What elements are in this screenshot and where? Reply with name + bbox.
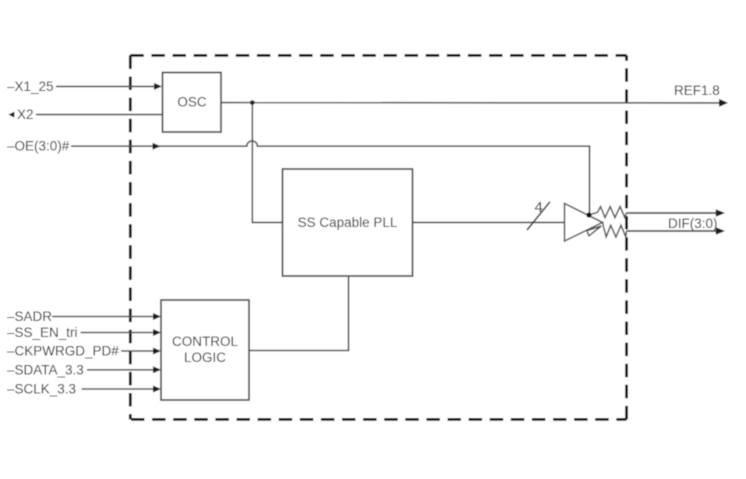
svg-text:4: 4: [535, 199, 543, 216]
svg-text:–SDATA_3.3: –SDATA_3.3: [7, 362, 84, 377]
svg-text:–SADR: –SADR: [7, 309, 52, 324]
svg-text:–CKPWRGD_PD#: –CKPWRGD_PD#: [7, 344, 119, 359]
svg-text:–OE(3:0)#: –OE(3:0)#: [7, 139, 70, 154]
svg-text:CONTROL: CONTROL: [172, 334, 238, 349]
svg-text:X2: X2: [17, 107, 34, 122]
svg-text:OSC: OSC: [177, 95, 207, 110]
svg-text:–SCLK_3.3: –SCLK_3.3: [7, 382, 76, 397]
svg-text:SS Capable PLL: SS Capable PLL: [298, 215, 398, 230]
svg-text:LOGIC: LOGIC: [184, 350, 226, 365]
svg-text:–X1_25: –X1_25: [7, 79, 54, 94]
svg-text:REF1.8: REF1.8: [674, 83, 720, 98]
svg-text:DIF(3:0): DIF(3:0): [668, 216, 718, 231]
svg-text:–SS_EN_tri: –SS_EN_tri: [7, 325, 78, 340]
